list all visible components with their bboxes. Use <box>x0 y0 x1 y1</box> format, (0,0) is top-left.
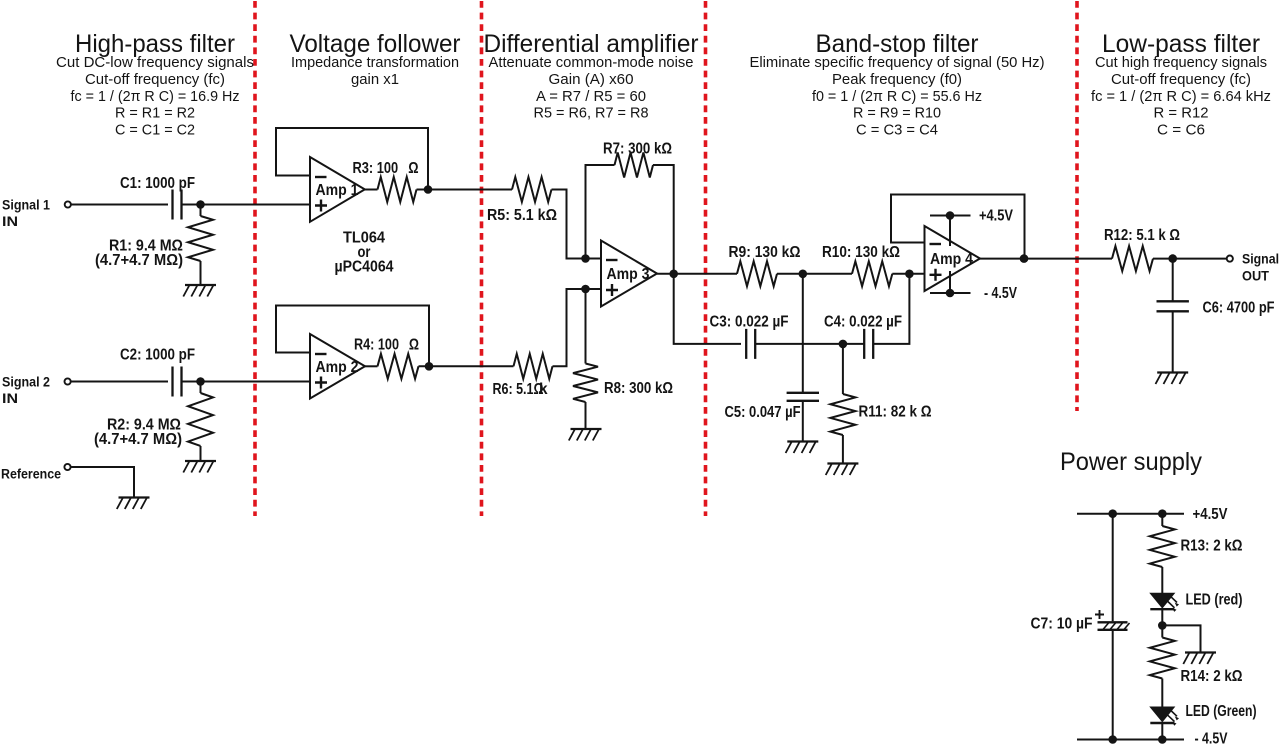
svg-text:Gain (A) x60: Gain (A) x60 <box>549 71 634 88</box>
node junction R12/C6 <box>1168 254 1177 263</box>
wire LED red to junction <box>1161 609 1163 625</box>
node bottom rail/C7 junction <box>1108 735 1117 744</box>
terminal Signal OUT <box>1227 256 1233 262</box>
svg-text:f0 = 1 / (2π R C) = 55.6 Hz: f0 = 1 / (2π R C) = 55.6 Hz <box>812 88 982 105</box>
wire R11 to ground <box>842 435 844 464</box>
resistor R11 <box>830 394 855 435</box>
svg-text:R = R1 = R2: R = R1 = R2 <box>115 105 195 122</box>
terminal Reference <box>64 464 70 470</box>
svg-text:R4: 100 Ω: R4: 100 Ω <box>354 337 419 354</box>
svg-text:C3: 0.022 µF: C3: 0.022 µF <box>710 314 789 331</box>
wire Amp1 output to R3 <box>365 189 378 191</box>
svg-text:R12: 5.1 k Ω: R12: 5.1 k Ω <box>1104 227 1180 244</box>
wire +4.5V rail stub <box>930 215 971 217</box>
svg-text:C1: 1000 pF: C1: 1000 pF <box>120 175 195 192</box>
svg-text:C = C3 = C4: C = C3 = C4 <box>856 122 938 139</box>
section divider line 2 <box>480 1 484 516</box>
svg-text:Signal 2: Signal 2 <box>2 375 50 390</box>
node junction Signal2/R2 <box>196 377 205 386</box>
svg-text:fc = 1 / (2π R C) = 16.9 Hz: fc = 1 / (2π R C) = 16.9 Hz <box>71 88 240 105</box>
svg-text:R = R12: R = R12 <box>1154 105 1209 122</box>
wire Amp2 output to R4 <box>365 365 378 367</box>
svg-text:R9: 130 kΩ: R9: 130 kΩ <box>729 244 801 261</box>
wire C6 branch <box>1172 259 1174 302</box>
ground mid supply <box>1183 653 1216 665</box>
capacitor C4 <box>864 329 873 359</box>
wire R5 to Amp3 - input <box>552 190 602 259</box>
svg-text:R8: 300 kΩ: R8: 300 kΩ <box>604 380 673 397</box>
wire R9 to R10 <box>777 273 852 275</box>
wire R2 to ground <box>200 446 202 461</box>
svg-text:R10: 130 kΩ: R10: 130 kΩ <box>822 244 900 261</box>
svg-text:µPC4064: µPC4064 <box>335 259 394 276</box>
wire junction to ground stub <box>1162 625 1200 652</box>
svg-text:C = C6: C = C6 <box>1157 122 1205 139</box>
wire junction to R1 <box>200 205 202 217</box>
ground R8 <box>569 429 602 441</box>
wire C5 branch <box>802 274 804 393</box>
wire -4.5V bottom rail <box>1077 739 1184 741</box>
wire R11 branch <box>842 344 844 394</box>
ground R1 <box>183 285 216 297</box>
LED D1 red <box>1150 593 1174 608</box>
wire Amp4 +4.5V pin <box>949 216 951 247</box>
wire rail to R13 <box>1161 514 1163 526</box>
wire Amp4 -4.5V pin <box>949 271 951 293</box>
svg-text:fc = 1 / (2π R C) = 6.64 kHz: fc = 1 / (2π R C) = 6.64 kHz <box>1091 88 1271 105</box>
svg-text:Cut high frequency signals: Cut high frequency signals <box>1095 54 1267 71</box>
wire Amp4 output <box>980 258 1112 260</box>
resistor R14 <box>1150 638 1175 679</box>
capacitor C7 polarized <box>1098 621 1128 623</box>
wire R1 to ground <box>200 261 202 285</box>
wire C3 to C4 <box>756 343 865 345</box>
svg-text:Impedance transformation: Impedance transformation <box>291 54 459 71</box>
wire junction to R14 <box>1161 625 1163 637</box>
svg-text:A = R7 / R5 = 60: A = R7 / R5 = 60 <box>536 88 646 105</box>
ground C5 <box>786 442 819 454</box>
wire R8 from + input <box>585 289 587 364</box>
wire C4 to + input riser <box>874 274 910 344</box>
node junction Amp4 output <box>1020 254 1029 263</box>
node junction Amp3 + input <box>581 285 590 294</box>
wire R7 feedback loop <box>586 165 615 259</box>
svg-text:R11: 82 k Ω: R11: 82 k Ω <box>859 404 932 421</box>
wire C1 to Amp1 + input <box>182 204 310 206</box>
wire R8 to ground <box>585 402 587 429</box>
svg-text:Signal 1: Signal 1 <box>2 198 50 213</box>
wire rail to C7 <box>1112 514 1114 622</box>
wire -4.5V rail stub <box>930 292 971 294</box>
node junction Amp3 - input <box>581 254 590 263</box>
svg-text:C4: 0.022 µF: C4: 0.022 µF <box>824 314 902 331</box>
node junction R9/R10/C5 <box>799 270 808 279</box>
svg-text:k: k <box>539 381 548 398</box>
svg-text:Signal: Signal <box>1242 252 1279 267</box>
wire +4.5V top rail <box>1077 513 1184 515</box>
wire R7 to Amp3 output <box>653 165 674 274</box>
svg-text:Cut-off frequency (fc): Cut-off frequency (fc) <box>85 71 225 88</box>
wire Amp3 output <box>657 273 737 275</box>
wire Signal2 to C2 <box>71 381 168 383</box>
resistor R6 <box>514 354 553 379</box>
capacitor C3 <box>746 329 755 359</box>
resistor R1 <box>188 216 213 261</box>
resistor R8 <box>573 364 598 403</box>
svg-text:Amp 2: Amp 2 <box>316 359 359 376</box>
ground R11 <box>826 464 859 476</box>
section divider line 1 <box>253 1 257 516</box>
svg-text:C = C1 = C2: C = C1 = C2 <box>115 122 195 139</box>
svg-text:- 4.5V: - 4.5V <box>984 285 1018 302</box>
wire R10 to Amp4 + input <box>892 273 924 275</box>
resistor R10 <box>852 261 892 286</box>
svg-text:C5: 0.047 µF: C5: 0.047 µF <box>725 404 801 421</box>
capacitor C2 <box>173 367 182 397</box>
svg-text:- 4.5V: - 4.5V <box>1195 731 1229 747</box>
node rail/R13 junction <box>1158 509 1167 518</box>
wire Amp4 feedback loop <box>891 195 1025 259</box>
ground R2 <box>183 461 216 473</box>
wire C7 to bottom rail <box>1112 630 1114 740</box>
svg-text:(4.7+4.7 MΩ): (4.7+4.7 MΩ) <box>94 431 182 448</box>
ground C6 <box>1156 373 1189 385</box>
wire R4 to R6 <box>419 365 514 367</box>
terminal Signal 1 IN <box>65 201 71 207</box>
wire R13 to LED red <box>1161 567 1163 593</box>
svg-text:R6: 5.1Ω: R6: 5.1Ω <box>493 381 544 398</box>
capacitor C5 <box>787 393 819 401</box>
svg-text:LED (Green): LED (Green) <box>1186 703 1257 720</box>
svg-text:R5: 5.1 kΩ: R5: 5.1 kΩ <box>487 207 557 224</box>
svg-text:Cut-off frequency (fc): Cut-off frequency (fc) <box>1111 71 1251 88</box>
wire Signal1 to C1 <box>71 204 168 206</box>
node -4.5V pin dot <box>946 289 955 298</box>
svg-text:OUT: OUT <box>1242 269 1270 284</box>
wire bottom T path left <box>674 274 741 344</box>
svg-text:IN: IN <box>2 391 18 406</box>
wire Amp1 feedback loop <box>276 128 428 190</box>
node junction C3/C4/R11 <box>839 340 848 349</box>
resistor R12 <box>1112 246 1153 271</box>
wire R6 to Amp3 + input <box>553 289 602 366</box>
node junction LED/R14/ground <box>1158 621 1167 630</box>
node junction Amp1 output <box>424 185 433 194</box>
svg-text:LED (red): LED (red) <box>1186 592 1243 609</box>
svg-text:C6: 4700 pF: C6: 4700 pF <box>1203 300 1275 317</box>
resistor R3 <box>378 177 417 202</box>
svg-text:R13: 2 kΩ: R13: 2 kΩ <box>1181 538 1243 555</box>
svg-text:R3: 100 Ω: R3: 100 Ω <box>353 160 419 177</box>
svg-text:Power supply: Power supply <box>1060 448 1202 476</box>
wire R12 to Signal OUT <box>1153 258 1227 260</box>
resistor R9 <box>737 261 777 286</box>
resistor R4 <box>378 354 419 379</box>
svg-text:Amp 3: Amp 3 <box>607 266 650 283</box>
resistor R13 <box>1150 526 1175 567</box>
svg-text:R7: 300 kΩ: R7: 300 kΩ <box>603 141 672 158</box>
svg-text:Reference: Reference <box>1 467 61 482</box>
wire Amp2 feedback loop <box>276 306 429 367</box>
wire LED green to bottom rail <box>1161 723 1163 740</box>
svg-text:Amp 1: Amp 1 <box>316 182 359 199</box>
resistor R7 <box>615 153 654 178</box>
capacitor C1 <box>173 190 182 220</box>
svg-text:Attenuate common-mode noise: Attenuate common-mode noise <box>489 54 694 71</box>
svg-text:+4.5V: +4.5V <box>979 208 1014 225</box>
svg-text:Eliminate specific frequency o: Eliminate specific frequency of signal (… <box>750 54 1045 71</box>
op-amp U4 Amp 4 <box>925 226 981 291</box>
svg-text:C2: 1000 pF: C2: 1000 pF <box>120 347 195 364</box>
wire junction to R2 <box>200 382 202 394</box>
node bottom rail/LED junction <box>1158 735 1167 744</box>
op-amp U3 Amp 3 <box>601 241 657 307</box>
node junction Signal1/R1 <box>196 200 205 209</box>
svg-text:R = R9 = R10: R = R9 = R10 <box>853 105 941 122</box>
ground Reference <box>117 498 150 510</box>
svg-text:C7: 10 µF: C7: 10 µF <box>1031 616 1093 633</box>
label C7 plus sign <box>1095 610 1104 619</box>
wire C6 to ground <box>1172 311 1174 372</box>
wire C5 to ground <box>802 401 804 442</box>
section divider line 4 <box>1075 1 1079 411</box>
node junction Amp4 + input <box>905 270 914 279</box>
capacitor C6 <box>1157 301 1189 311</box>
svg-text:(4.7+4.7 MΩ): (4.7+4.7 MΩ) <box>95 252 183 269</box>
section divider line 3 <box>704 1 708 516</box>
svg-text:R5 = R6, R7 = R8: R5 = R6, R7 = R8 <box>534 105 649 122</box>
resistor R2 <box>188 393 213 446</box>
resistor R5 <box>512 177 551 202</box>
op-amp U2 Amp 2 <box>310 334 365 399</box>
terminal Signal 2 IN <box>65 378 71 384</box>
wire C2 to Amp2 + input <box>182 381 310 383</box>
svg-text:Cut DC-low frequency signals: Cut DC-low frequency signals <box>56 54 254 71</box>
wire Reference to ground <box>71 467 135 498</box>
svg-text:Peak frequency (f0): Peak frequency (f0) <box>832 71 962 88</box>
node rail/C7 junction <box>1108 509 1117 518</box>
svg-text:Amp 4: Amp 4 <box>930 251 973 268</box>
svg-text:gain x1: gain x1 <box>351 71 399 88</box>
svg-text:+4.5V: +4.5V <box>1193 506 1229 523</box>
wire R14 to LED green <box>1161 679 1163 708</box>
LED D2 green <box>1150 707 1174 722</box>
node junction Amp3 output <box>669 270 678 279</box>
node junction Amp2 output <box>425 362 434 371</box>
node +4.5V pin dot <box>946 211 955 220</box>
op-amp U1 Amp 1 <box>310 157 365 222</box>
wire R3 to R5 <box>417 189 513 191</box>
svg-text:IN: IN <box>2 214 18 229</box>
svg-text:R14: 2 kΩ: R14: 2 kΩ <box>1181 668 1243 685</box>
